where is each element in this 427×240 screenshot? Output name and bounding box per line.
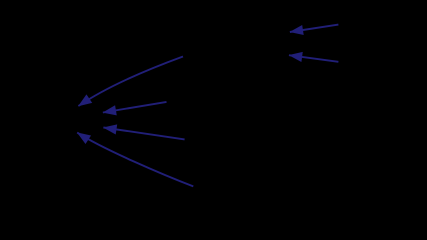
- arrow F (long curve from bottom to upper-left): [77, 133, 193, 187]
- arrow C (long curve from top to lower-left): [78, 57, 183, 107]
- arrow E (lower middle, pointing left-up): [103, 128, 184, 140]
- arrow A (top right, pointing left-down): [290, 25, 339, 32]
- arrow D (middle, pointing left-down): [103, 102, 167, 113]
- arrow B (right, pointing left-up): [289, 55, 338, 62]
